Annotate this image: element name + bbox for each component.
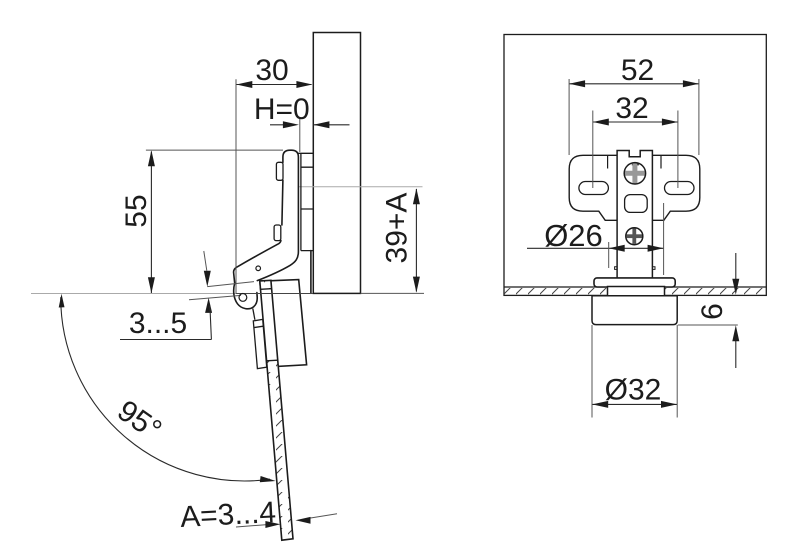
cup flange (594, 278, 675, 287)
right slot hole (665, 182, 695, 195)
cup neck through panel (608, 287, 665, 297)
arm screw tab upper (276, 162, 283, 180)
svg-text:52: 52 (621, 54, 654, 87)
thin line lower reference (189, 295, 241, 299)
dimension 55 (120, 150, 283, 293)
hinge arm lower diagonal and knuckle (234, 241, 281, 309)
dimension A=3...4 (179, 496, 337, 534)
dimension 52 (569, 54, 699, 155)
column nubs (615, 267, 655, 270)
arm screw tab lower (274, 225, 281, 241)
door panel (open) (260, 280, 307, 367)
screw slot top mark (632, 163, 639, 165)
svg-text:39+A: 39+A (380, 193, 413, 264)
dimension diameter 26 (527, 203, 664, 275)
knuckle to clip link (253, 309, 255, 320)
cabinet side panel (313, 33, 360, 294)
svg-text:A=3...4: A=3...4 (179, 496, 277, 534)
svg-text:30: 30 (255, 54, 288, 87)
hinge pivot (239, 294, 247, 302)
thin line under arm (3...5 upper reference) (207, 282, 254, 287)
mount wing plate (569, 155, 700, 220)
svg-text:3...5: 3...5 (129, 307, 187, 340)
dimension H=0 (254, 93, 350, 152)
svg-text:55: 55 (120, 194, 153, 227)
svg-text:H=0: H=0 (254, 93, 310, 126)
cabinet panel face (square) (504, 35, 766, 296)
arm rivet (256, 266, 261, 271)
dimension 39+A (380, 188, 420, 292)
hinge arm outline (257, 150, 298, 280)
dimension 3...5 (120, 251, 212, 340)
svg-text:6: 6 (696, 303, 729, 320)
svg-text:32: 32 (615, 92, 648, 125)
plate lower block (310, 251, 312, 294)
front strip (hatched, thickness A) (260, 280, 293, 540)
clamp bottom edge across strip (267, 359, 278, 362)
dimension 95 degrees arc (59, 294, 276, 482)
svg-text:Ø32: Ø32 (605, 374, 662, 407)
dimension 30 (236, 54, 312, 294)
square hole (625, 195, 648, 213)
dimension 6 (678, 253, 740, 368)
central column (617, 151, 652, 279)
left slot hole (579, 182, 609, 195)
plate tab ticks against panel edge (298, 153, 313, 250)
extension line 39+A (gray) (299, 186, 423, 188)
column collar edges (608, 156, 661, 169)
top screw (624, 163, 645, 184)
dimension diameter 32 (592, 325, 677, 418)
clip plate on strip (253, 319, 266, 368)
hinge arm left edge segments (282, 180, 283, 225)
bottom screw (626, 228, 643, 245)
clamp line across strip (260, 288, 271, 291)
dimension 32 (593, 92, 678, 188)
baseline (panel front plane) (31, 293, 236, 295)
baseline over hinge (236, 293, 313, 295)
panel edge hatched band (504, 287, 766, 295)
cup body (592, 296, 677, 325)
hinge mount plate back edge (300, 153, 302, 250)
